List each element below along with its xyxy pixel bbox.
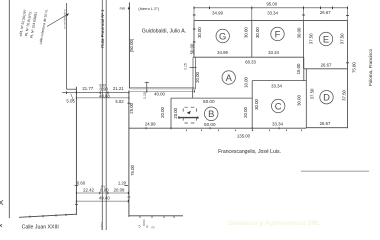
south boundary [129,127,306,129]
svg-text:75.00: 75.00 [130,165,135,176]
colectora west boundary line [66,3,68,89]
svg-text:D: D [323,92,330,103]
divider B C [251,81,253,129]
dim line 21.77 8.90 21.21 [62,92,129,94]
svg-text:Francescangelis, José Luis.: Francescangelis, José Luis. [218,149,281,155]
east boundary [347,21,349,129]
parcel west upper line from m/e dot [128,3,130,89]
G F bottom and lot A top boundary [193,56,304,58]
svg-text:26.67: 26.67 [321,62,332,67]
lot E circle [319,32,332,45]
svg-text:10.00: 10.00 [244,77,249,88]
svg-text:Ruta Provincial Nº 1: Ruta Provincial Nº 1 [100,9,105,48]
dim line 48.88 [76,97,128,99]
divider F E [303,21,305,69]
lot D bottom boundary [306,127,347,129]
svg-text:37.50: 37.50 [342,90,347,101]
svg-text:Guidobaldi, Julio A.: Guidobaldi, Julio A. [142,29,186,35]
rotated title block text top-left [18,5,49,45]
road Ruta Provincial east line [105,0,107,230]
lot B top boundary [171,97,252,99]
small ticks 0.60 1.20 [75,185,128,187]
svg-text:a: a [146,225,148,229]
svg-text:135.00: 135.00 [237,134,251,139]
west lot line x76 [75,87,77,215]
dimension texts horizontal [66,2,332,201]
svg-text:1.20: 1.20 [118,181,127,186]
svg-text:25.00: 25.00 [129,102,134,113]
svg-text:20.00: 20.00 [243,107,248,118]
lot C top boundary [252,80,306,82]
svg-text:30.00: 30.00 [296,95,301,106]
road east line lower [128,91,130,217]
svg-text:5.05: 5.05 [66,99,75,104]
lot D circle [320,91,333,104]
svg-text:Calle Juan XXIII: Calle Juan XXIII [22,224,59,230]
svg-text:20.00: 20.00 [195,72,200,83]
svg-text:30.00: 30.00 [244,27,249,38]
svg-text:5.02: 5.02 [115,99,124,104]
lot A west boundary double [193,57,195,89]
svg-text:37.50: 37.50 [309,33,314,44]
corner marker x146.8 [145,82,149,93]
m/e and hierro labels [120,6,160,11]
svg-text:E: E [323,33,329,44]
road Ruta Provincial west line [101,0,103,230]
svg-text:(hierro L 2"): (hierro L 2") [138,6,160,11]
svg-text:37.50: 37.50 [340,33,345,44]
street line ticks [30,214,66,218]
0.15 tick [190,67,197,69]
svg-text:21.77: 21.77 [82,86,93,91]
lot G west boundary [193,21,195,58]
svg-text:40.00: 40.00 [154,91,165,96]
street corner east line [129,215,183,217]
south boundary ticks [146,127,279,129]
svg-text:B: B [208,108,214,119]
svg-text:49.40: 49.40 [99,196,110,201]
5a m mark bottom [139,220,155,230]
svg-text:F: F [275,28,281,39]
leader to colectora line [47,14,69,27]
svg-text:Geodesia y Agrimensura SRL: Geodesia y Agrimensura SRL [228,220,320,227]
svg-text:G: G [219,30,226,41]
svg-text:8.V: 8.V [101,185,105,189]
svg-text:33.34: 33.34 [267,10,278,15]
svg-text:68.33: 68.33 [245,59,256,64]
lot F circle [271,27,284,40]
windmill symbol dashed [178,107,199,123]
calle Juan XXIII street line [19,214,76,217]
svg-text:0.15: 0.15 [184,63,188,70]
svg-text:24.99: 24.99 [145,122,156,127]
lot C circle [272,99,285,112]
lot A east boundary [303,57,305,80]
svg-text:30.00: 30.00 [254,99,259,110]
lot G circle [216,29,229,42]
svg-text:33.34: 33.34 [271,84,282,89]
x survey mark left edge [0,200,3,205]
dim dotted line 135.00 [186,130,302,131]
svg-text:21.21: 21.21 [113,86,124,91]
svg-text:20.08: 20.08 [114,187,125,192]
svg-text:26.67: 26.67 [320,10,331,15]
svg-text:0.15: 0.15 [143,92,147,99]
small mark lower left edge [0,224,2,227]
faint watermark [228,220,320,227]
svg-text:20.00: 20.00 [160,107,165,118]
svg-text:50.00: 50.00 [204,122,216,127]
svg-text:48.88: 48.88 [99,93,110,98]
svg-text:95.00: 95.00 [266,2,277,7]
m/e dot [128,7,130,9]
lot D west boundary [305,69,307,128]
svg-text:Paloma, Francisco: Paloma, Francisco [368,48,373,86]
svg-text:15.00: 15.00 [296,63,301,74]
lot block top boundary [194,20,348,22]
svg-text:50.00: 50.00 [190,43,195,54]
svg-text:34.99: 34.99 [217,50,228,55]
svg-text:30.00: 30.00 [255,27,260,38]
lot B west boundary [170,98,172,128]
svg-text:5: 5 [139,225,141,229]
svg-text:33.34: 33.34 [268,50,279,55]
svg-text:26.67: 26.67 [320,121,331,126]
svg-text:m/e: m/e [120,6,126,10]
dim line 49.40 [76,200,128,202]
svg-text:en servidumbre: en servidumbre [63,9,67,29]
svg-text:8.00: 8.00 [99,84,106,88]
band south of Guidobaldi double line [129,87,194,89]
svg-text:34.99: 34.99 [212,10,223,15]
rotated dimension labels [129,27,357,176]
gray separator line right [301,170,369,172]
divider G F [251,21,253,58]
svg-text:75.00: 75.00 [352,62,357,73]
svg-text:C: C [275,100,282,111]
svg-text:m: m [152,226,155,230]
svg-text:0.60: 0.60 [77,181,86,186]
lot circles [204,27,333,120]
svg-text:37.50: 37.50 [309,88,314,99]
svg-text:30.00: 30.00 [297,27,302,38]
left sheet line [8,0,10,218]
svg-text:30.00: 30.00 [197,27,202,38]
svg-text:(50.00): (50.00) [129,38,134,52]
svg-text:A: A [226,72,233,83]
svg-text:33.34: 33.34 [272,122,283,127]
svg-text:colect: colect [99,222,103,230]
svg-text:22.42: 22.42 [83,187,94,192]
svg-text:50.00: 50.00 [203,99,215,104]
dim line 40.00 [129,90,194,92]
top dim line 95.00 [194,7,348,9]
lot A circle [222,71,235,84]
lot B circle [204,107,218,121]
dim line 22.42 8.90 20.08 [76,192,128,194]
E bottom / D top boundary [304,68,348,70]
svg-text:20.00: 20.00 [173,107,178,118]
jog at colectora corner [67,88,77,90]
